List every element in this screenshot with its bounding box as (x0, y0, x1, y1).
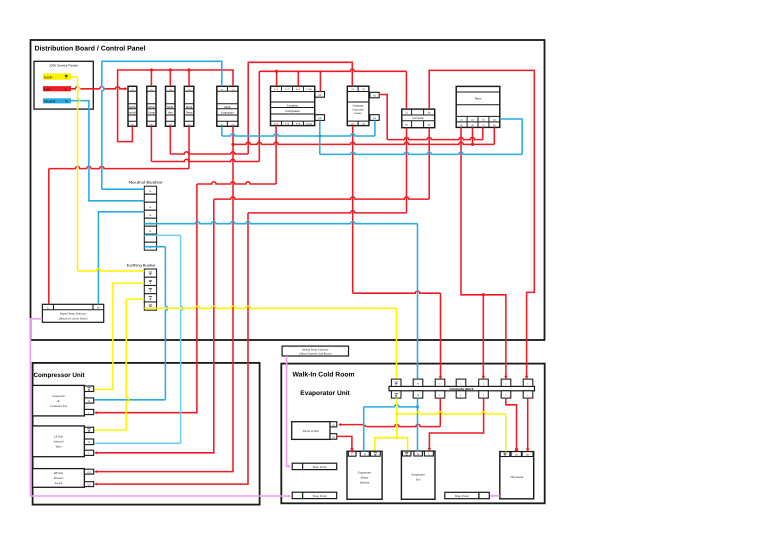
svg-text:(1): (1) (88, 471, 91, 474)
svg-text:Earth: Earth (44, 76, 52, 80)
wire neutral busbar to compressor N (94, 247, 167, 400)
thermostat box (500, 452, 534, 499)
svg-text:(6): (6) (471, 124, 474, 127)
svg-text:Temp: Temp (186, 111, 193, 114)
svg-text:MCB: MCB (224, 106, 230, 109)
svg-text:Heater: Heater (360, 475, 370, 479)
svg-text:Neutral: Neutral (44, 100, 55, 104)
wire drop to contactor 5-L3 (297, 71, 299, 86)
therm o disc box (292, 422, 337, 440)
svg-text:Connector: Connector (412, 117, 424, 120)
compressor unit enclosure (33, 363, 260, 505)
neutral busbar (129, 180, 164, 250)
svg-text:on/off: on/off (129, 111, 136, 114)
HP side pressure switch box (33, 469, 94, 488)
digital temp indicator box (42, 304, 103, 322)
contactor compressor A1 terminal (315, 92, 325, 98)
distribution board / control panel enclosure (31, 40, 545, 340)
svg-text:N: N (150, 206, 152, 209)
svg-text:MCB: MCB (148, 106, 154, 109)
svg-text:(1): (1) (232, 88, 235, 91)
svg-text:(2): (2) (526, 453, 529, 456)
contactor compressor A2 terminal (315, 115, 325, 121)
compressor and condenser fan box (33, 385, 94, 416)
svg-text:(1): (1) (188, 88, 191, 91)
svg-text:Fan: Fan (415, 478, 421, 482)
svg-text:Pressure: Pressure (53, 477, 64, 480)
contactor evaporator A1 terminal (370, 92, 379, 98)
wire evaporator contactor A1 coil to timer terminal 3 (380, 95, 483, 140)
svg-text:(2): (2) (332, 436, 335, 439)
walk-in cold room / evaporator unit enclosure (281, 364, 544, 504)
wire drop bus to MCB4 top (188, 70, 190, 86)
MCB1 on/off (128, 86, 137, 126)
svg-text:Contactor: Contactor (287, 104, 299, 107)
svg-text:Neutral Busbar: Neutral Busbar (129, 180, 164, 184)
wire earthing busbar to compressor earth (94, 283, 144, 389)
wire MCB4 output to digital temp indicator L (49, 126, 189, 304)
wire neutral busbar to digital temp indicator N (98, 212, 144, 304)
LP side solenoid valve box (33, 426, 94, 457)
svg-text:(4): (4) (428, 124, 431, 127)
contactor evaporator A2 terminal (370, 115, 379, 121)
neutral bar (43, 98, 71, 103)
svg-text:(2): (2) (188, 123, 191, 126)
svg-text:(Mount Outside Cold Room): (Mount Outside Cold Room) (299, 352, 331, 355)
svg-text:Valve: Valve (55, 446, 62, 449)
wire MCB evaporator L to HP switch T1 (94, 126, 234, 473)
wire walk-in connector c3 to therm-o-disc (338, 398, 440, 427)
svg-text:Live: Live (44, 88, 50, 92)
temp probe 2 (digital indicator) (292, 492, 337, 498)
svg-text:(5): (5) (460, 124, 463, 127)
wire control feed to timer (233, 127, 494, 146)
svg-text:(1): (1) (515, 453, 518, 456)
svg-text:13-NO: 13-NO (306, 88, 312, 91)
svg-text:Temp. Probe: Temp. Probe (455, 495, 470, 498)
contactor compressor (271, 86, 315, 126)
earth bar (43, 73, 71, 79)
svg-text:N: N (150, 190, 152, 193)
svg-text:(2): (2) (351, 123, 354, 126)
svg-text:(2): (2) (169, 123, 172, 126)
wire branch to walk-in connector c5 (482, 295, 486, 379)
svg-text:Evaporator: Evaporator (221, 111, 234, 114)
wire MCB3 output to evaporator contactor (170, 62, 352, 154)
wire coil neutral to timer (320, 119, 522, 154)
wire MCB1 output riser and top distribution bus (118, 68, 233, 141)
wire live feed to MCB1 (71, 87, 128, 91)
svg-text:Contactor: Contactor (353, 104, 364, 107)
svg-text:Therm O Disc: Therm O Disc (303, 429, 320, 433)
svg-text:MCB: MCB (167, 106, 173, 109)
wire neutral busbar to walk-in connector c2 (144, 222, 417, 379)
wire evaporator contactor output to walk-in connector c3 (353, 126, 443, 380)
svg-text:MCB: MCB (186, 106, 192, 109)
svg-text:Walk-In Cold Room: Walk-In Cold Room (293, 372, 355, 379)
wire MCB evaporator N to contactor coils A2 (222, 120, 375, 137)
MCB Evaporator (double pole) (217, 86, 238, 126)
svg-text:HP Side: HP Side (53, 472, 64, 475)
svg-text:Comp: Comp (148, 111, 156, 114)
svg-text:LP Side: LP Side (53, 436, 63, 439)
svg-text:Heater: Heater (355, 112, 362, 115)
wire connector 2 output to LP solenoid L (94, 128, 429, 455)
connector block (distribution board) (402, 109, 435, 128)
svg-text:(1): (1) (332, 424, 335, 427)
svg-text:Distribution Board / Control P: Distribution Board / Control Panel (35, 46, 146, 53)
svg-text:(1): (1) (351, 88, 354, 91)
svg-text:(2): (2) (150, 123, 153, 126)
wire MCB2 output to contactor bus (151, 69, 406, 161)
MCB2 Comp (147, 86, 156, 126)
svg-text:(2): (2) (232, 123, 235, 126)
svg-text:(1): (1) (405, 111, 408, 114)
wire thermostat to temp probe 3 (490, 494, 500, 498)
svg-text:Digital Temp. Indicator: Digital Temp. Indicator (59, 313, 87, 316)
svg-text:Analog Temp. Indicator: Analog Temp. Indicator (301, 348, 329, 351)
temp probe 1 (analog indicator) (292, 463, 337, 469)
svg-text:L: L (65, 88, 67, 92)
svg-text:(1): (1) (169, 88, 172, 91)
svg-text:Evaporator: Evaporator (357, 470, 372, 474)
wire walk-in connector c7 to thermostat 2 (526, 398, 530, 452)
wire walk-in connector c5 to evaporator fan L (428, 398, 484, 451)
svg-text:Compressor Unit: Compressor Unit (34, 372, 86, 379)
svg-text:N: N (88, 400, 90, 403)
wire timer output to walk-in connectors c5 c6 (461, 127, 508, 379)
svg-text:Temp. Probe: Temp. Probe (313, 495, 328, 498)
svg-text:(1): (1) (150, 88, 153, 91)
svg-text:220V Service Panels: 220V Service Panels (49, 63, 78, 67)
svg-text:(2): (2) (471, 119, 474, 122)
svg-text:Solenoid: Solenoid (54, 441, 64, 444)
svg-text:Switch: Switch (55, 482, 63, 485)
svg-text:(Mount at Control Panel): (Mount at Control Panel) (59, 318, 88, 321)
analog temp indicator box (282, 346, 348, 356)
svg-text:Earthing Busbar: Earthing Busbar (127, 263, 157, 267)
connector block (walk-in) (389, 379, 535, 398)
svg-text:(4): (4) (493, 119, 496, 122)
wire therm-o-disc to heater element L (337, 436, 354, 452)
svg-text:14-NO: 14-NO (306, 123, 312, 126)
wire earthing busbar to walk-in connector c1 (144, 306, 396, 379)
wire timer terminal 2 drop (472, 127, 474, 144)
wire digital temp indicator to temp probe 2 (30, 319, 291, 498)
live bar (43, 86, 71, 91)
wire walk-in connector c2 to heater and fan N (364, 398, 419, 451)
svg-text:(2): (2) (88, 483, 91, 486)
svg-text:(2): (2) (131, 123, 134, 126)
svg-text:Evaporator: Evaporator (411, 473, 426, 477)
svg-text:(3): (3) (482, 119, 485, 122)
svg-text:(1): (1) (131, 88, 134, 91)
svg-text:Condenser Fan: Condenser Fan (50, 405, 68, 408)
wire walk-in connector c6 to thermostat 1 (506, 398, 518, 452)
svg-text:Thermostat: Thermostat (510, 475, 523, 479)
wire connector 1 output to HP switch T2 (94, 128, 406, 486)
wire analog temp indicator to temp probe 1 (287, 356, 291, 468)
220V service panel box (34, 61, 93, 109)
svg-text:Evaporator: Evaporator (352, 109, 364, 112)
svg-text:Compressor: Compressor (285, 110, 300, 113)
svg-text:Compressor: Compressor (52, 395, 66, 398)
wire drop to contactor A1 (319, 71, 321, 91)
svg-text:Temp. Probe: Temp. Probe (313, 466, 328, 469)
contactor evaporator heater (347, 86, 369, 126)
wire walk-in earth distribution (375, 398, 506, 451)
svg-text:(2): (2) (428, 111, 431, 114)
wire earthing busbar to LP solenoid earth (94, 299, 144, 430)
svg-text:N: N (150, 230, 152, 233)
wire thermostat loop feed via top (429, 70, 534, 379)
svg-text:Timer: Timer (474, 97, 481, 101)
svg-text:(1): (1) (460, 119, 463, 122)
svg-text:(4): (4) (362, 123, 365, 126)
wire neutral top bus to MCB evaporator N (102, 61, 222, 189)
svg-text:N: N (150, 214, 152, 217)
MCB3 Htrs (166, 86, 176, 126)
svg-text:(8): (8) (493, 124, 496, 127)
svg-text:N: N (88, 441, 90, 444)
svg-text:Element: Element (359, 480, 370, 484)
svg-text:Evaporator Unit: Evaporator Unit (300, 390, 350, 397)
svg-text:(3): (3) (405, 124, 408, 127)
wire contactor 2-T1 to compressor L (94, 126, 276, 415)
svg-text:Htrs: Htrs (168, 111, 174, 114)
wire neutral busbar to LP solenoid N (94, 235, 183, 443)
wire drop to contactor 1-L1 (275, 70, 278, 87)
wire service earth to earthing busbar (71, 77, 144, 271)
svg-text:Connector Block: Connector Block (449, 387, 473, 391)
earthing busbar (127, 263, 157, 310)
wire drop bus to MCB3 top (169, 70, 171, 86)
timer (456, 86, 500, 127)
wire drop bus to MCB2 top (150, 70, 152, 86)
svg-text:(7): (7) (482, 124, 485, 127)
temp probe 3 (thermostat) (445, 492, 490, 498)
evaporator fan box (401, 451, 435, 499)
svg-text:N: N (97, 307, 99, 310)
svg-text:MCB: MCB (129, 106, 135, 109)
evaporator heater element box (347, 451, 382, 499)
MCB4 Temp (184, 86, 194, 126)
svg-text:(3): (3) (362, 88, 365, 91)
wire service neutral to busbar (71, 101, 144, 201)
